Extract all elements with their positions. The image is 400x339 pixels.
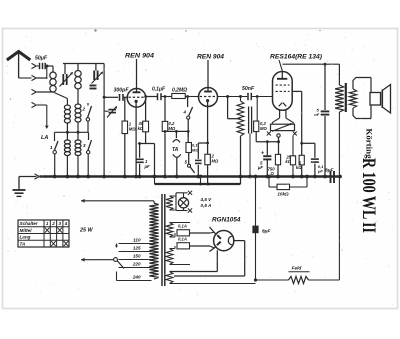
svg-text:RES164(RE 134): RES164(RE 134): [270, 54, 322, 61]
svg-text:2: 2: [51, 221, 55, 226]
svg-text:4: 4: [64, 221, 68, 226]
svg-text:MΩ: MΩ: [212, 159, 219, 164]
svg-text:kΩ: kΩ: [296, 165, 302, 170]
svg-text:Körting: Körting: [364, 129, 373, 160]
svg-text:TA: TA: [20, 241, 26, 246]
svg-text:0,5 A: 0,5 A: [201, 203, 212, 208]
svg-text:Feld: Feld: [292, 266, 303, 272]
svg-text:nF: nF: [314, 112, 319, 117]
svg-text:50nF: 50nF: [242, 86, 255, 92]
svg-text:MΩ: MΩ: [169, 126, 176, 131]
svg-text:4,5 V: 4,5 V: [200, 197, 213, 202]
svg-text:2: 2: [81, 107, 85, 113]
svg-text:μF: μF: [317, 169, 323, 174]
svg-text:MΩ: MΩ: [129, 127, 136, 132]
svg-text:MΩ: MΩ: [260, 126, 267, 131]
svg-text:4: 4: [183, 110, 187, 115]
svg-text:125: 125: [133, 245, 141, 250]
svg-text:kΩ: kΩ: [138, 126, 144, 131]
svg-text:0,1μF: 0,1μF: [152, 87, 166, 93]
svg-text:25 W: 25 W: [79, 228, 93, 234]
svg-text:RGN1054: RGN1054: [212, 217, 241, 224]
svg-text:0,2MΩ: 0,2MΩ: [172, 88, 187, 94]
svg-text:μF: μF: [144, 164, 151, 169]
svg-text:10kΩ: 10kΩ: [277, 192, 289, 197]
svg-text:300pF: 300pF: [114, 88, 130, 94]
svg-text:150: 150: [133, 253, 141, 258]
svg-text:Lang: Lang: [20, 235, 31, 240]
svg-text:3: 3: [83, 143, 86, 149]
svg-text:REN 904: REN 904: [125, 53, 154, 60]
svg-text:μF: μF: [257, 165, 264, 170]
svg-text:1: 1: [50, 145, 53, 151]
svg-text:50μF: 50μF: [35, 56, 48, 62]
svg-text:Schalter: Schalter: [20, 221, 38, 226]
svg-text:220: 220: [132, 261, 141, 266]
svg-text:Mittel: Mittel: [20, 228, 33, 233]
svg-text:ΤΑ: ΤΑ: [172, 147, 179, 153]
svg-text:110: 110: [133, 237, 141, 242]
svg-text:240: 240: [132, 274, 141, 279]
svg-text:0,1A: 0,1A: [178, 224, 187, 229]
svg-text:8μF: 8μF: [262, 229, 272, 235]
svg-text:LA: LA: [41, 135, 48, 141]
svg-text:REN 904: REN 904: [197, 54, 224, 61]
svg-text:5: 5: [184, 160, 187, 165]
svg-text:0,1A: 0,1A: [178, 237, 187, 242]
